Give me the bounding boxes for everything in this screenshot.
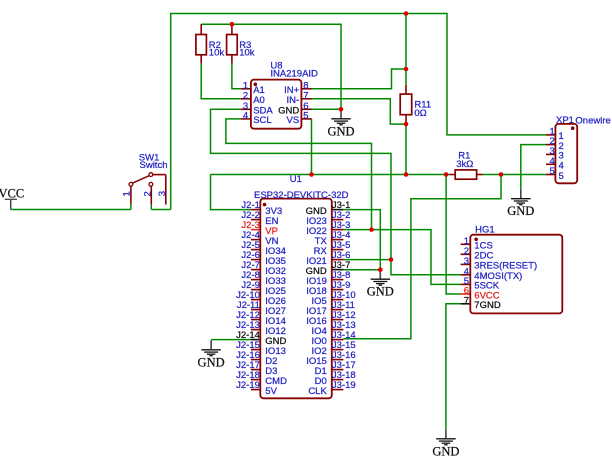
svg-text:10k: 10k	[209, 48, 225, 59]
svg-text:Switch: Switch	[140, 160, 168, 171]
svg-text:GND: GND	[507, 204, 534, 218]
svg-text:SCL: SCL	[253, 115, 271, 126]
svg-text:GND: GND	[367, 285, 394, 299]
svg-text:CLK: CLK	[308, 386, 327, 397]
svg-text:VS: VS	[287, 115, 300, 126]
svg-text:5: 5	[303, 111, 308, 122]
svg-text:3: 3	[157, 191, 168, 196]
svg-text:5: 5	[559, 171, 564, 182]
svg-text:U1: U1	[290, 174, 302, 185]
svg-text:7: 7	[464, 295, 469, 306]
svg-text:5V: 5V	[265, 386, 277, 397]
svg-text:IN-: IN-	[287, 95, 300, 106]
svg-text:3: 3	[464, 256, 469, 267]
svg-text:GND: GND	[432, 444, 459, 458]
svg-text:1: 1	[122, 191, 133, 196]
svg-text:7: 7	[303, 91, 308, 102]
svg-text:2: 2	[143, 191, 154, 196]
svg-text:GND: GND	[327, 124, 354, 138]
svg-text:GND: GND	[198, 355, 225, 369]
svg-text:0Ω: 0Ω	[414, 108, 426, 119]
svg-text:3RES(RESET): 3RES(RESET)	[474, 261, 537, 272]
svg-text:2: 2	[243, 91, 248, 102]
svg-text:10k: 10k	[239, 48, 255, 59]
svg-text:INA219AID: INA219AID	[270, 69, 318, 80]
svg-text:5: 5	[550, 166, 555, 177]
svg-text:HG1: HG1	[475, 225, 495, 236]
svg-text:XP1: XP1	[556, 115, 574, 126]
svg-text:4: 4	[243, 111, 248, 122]
svg-text:7GND: 7GND	[474, 300, 501, 311]
svg-text:VCC: VCC	[0, 186, 24, 200]
svg-text:3kΩ: 3kΩ	[456, 159, 473, 170]
svg-text:J2-19: J2-19	[236, 380, 260, 391]
svg-text:Onewire: Onewire	[575, 115, 610, 126]
svg-text:A0: A0	[253, 95, 265, 106]
svg-text:J3-19: J3-19	[332, 380, 356, 391]
